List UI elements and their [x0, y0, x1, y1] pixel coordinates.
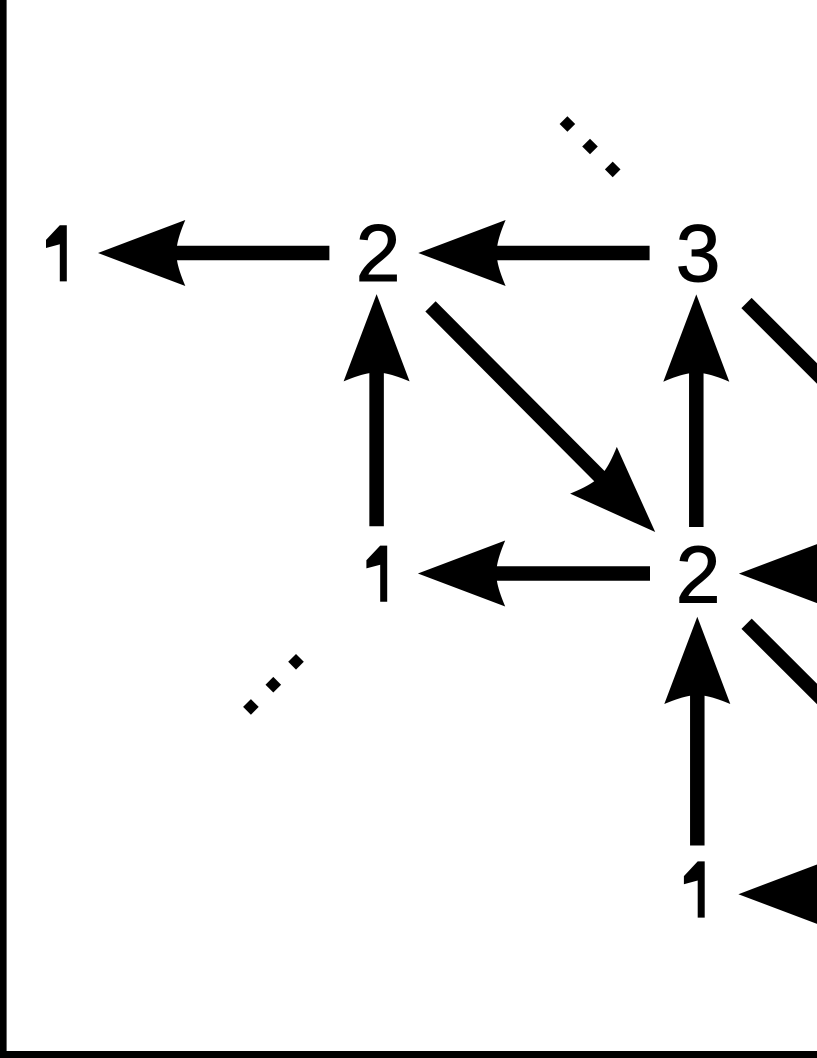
arrow 3 to 2 (top row, leftward) [418, 220, 649, 286]
arrow 1 middle to 2 top (upward) [344, 294, 410, 526]
ellipsis dots (top, diagonal continuation) [560, 116, 621, 177]
svg-text:3: 3 [676, 209, 721, 299]
node label 1 (middle) [366, 546, 387, 602]
arrow 2 to 1 (top row, leftward) [98, 220, 329, 286]
arrow from right edge to 1 (bottom row, leftward, clipped) [738, 861, 817, 927]
arrow 2 top to 2 middle (diagonal down-right) [431, 306, 679, 555]
arrow from right edge to 2 (middle row, leftward, clipped) [739, 541, 817, 607]
arrow 2 to 1 (middle row, leftward) [418, 541, 650, 607]
node label 1 (bottom) [684, 861, 705, 917]
svg-text:2: 2 [676, 530, 721, 620]
frame left border [0, 0, 7, 1058]
frame bottom border [0, 1051, 817, 1058]
arrow 1 bottom to 2 middle (upward) [664, 617, 730, 846]
node label 1 (top-left) [46, 225, 67, 281]
diagonal edge from 2 middle toward off-screen node (down-right, clipped) [747, 624, 817, 757]
ellipsis dots (lower-left, diagonal continuation) [243, 654, 304, 715]
svg-text:2: 2 [356, 209, 401, 299]
diagonal edge from 3 toward off-screen node (down-right, clipped) [747, 303, 817, 437]
arrow 2 middle to 3 top (upward) [663, 294, 729, 527]
